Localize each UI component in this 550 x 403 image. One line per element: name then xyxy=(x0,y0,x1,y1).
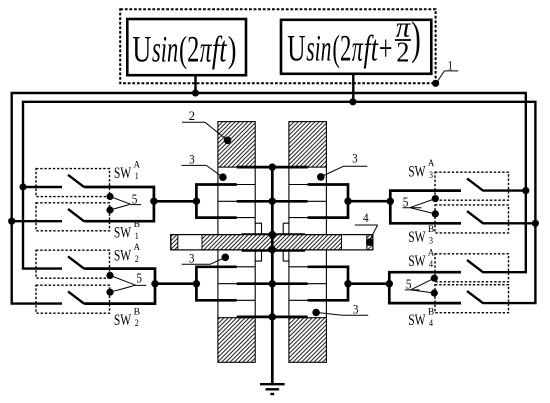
ground xyxy=(260,384,285,394)
wire: bus B (U2 output rail, left and right drops) xyxy=(23,102,535,303)
shuttle bar (label 4 element) xyxy=(171,235,373,250)
svg-text:2: 2 xyxy=(189,109,196,123)
svg-text:(2: (2 xyxy=(332,28,351,69)
svg-text:B: B xyxy=(134,307,140,318)
svg-text:3: 3 xyxy=(352,152,357,166)
svg-text:U: U xyxy=(287,28,305,69)
source U1 box: Usin(2pift) xyxy=(127,19,246,75)
node: SW2A contact dot xyxy=(106,272,113,279)
node: bus A / SW1B junction xyxy=(8,218,15,225)
comb frame lower-left column xyxy=(218,250,255,318)
stator electrode bracket upper-left xyxy=(196,185,236,218)
node: SW3A contact dot xyxy=(432,195,439,202)
switch SW1B xyxy=(36,203,110,231)
svg-text:ft: ft xyxy=(364,28,380,69)
node: SW3 input junction xyxy=(387,198,394,205)
node: SW2 output junction xyxy=(151,280,158,287)
signal source module dashed outline xyxy=(120,9,435,83)
label 5 for SW4 pair xyxy=(405,277,434,293)
node: lower-left bracket input xyxy=(193,280,200,287)
svg-text:3: 3 xyxy=(189,252,194,266)
finger row y283.7 (rotor, lower) xyxy=(237,282,308,285)
node: bus B / SW1A junction xyxy=(19,183,26,190)
stator electrode bracket lower-right xyxy=(308,267,348,301)
wire: SW4 pair input leads and tie bar xyxy=(389,272,461,303)
svg-text:4: 4 xyxy=(429,318,433,328)
node: U2 lead / bus B junction xyxy=(349,98,356,105)
svg-text:SW: SW xyxy=(114,312,132,329)
wire: SW3B right lead xyxy=(483,222,536,224)
label 3 upper-left xyxy=(182,153,222,177)
label 3 lower-left xyxy=(182,252,224,266)
label SW4^A xyxy=(408,247,434,269)
stator electrode bracket upper-right xyxy=(308,185,348,218)
stator block upper-left (hatched) xyxy=(218,122,255,168)
node: lower-right bracket input xyxy=(344,280,351,287)
shuttle neck outline above bar xyxy=(255,223,289,235)
svg-text:sin: sin xyxy=(152,30,178,71)
svg-text:): ) xyxy=(411,13,421,65)
label 5 for SW1 pair xyxy=(110,191,141,210)
node: spine row2 xyxy=(269,198,276,205)
finger row y167 (rotor, upper) xyxy=(237,166,308,169)
shuttle neck outline below bar xyxy=(255,250,289,261)
wire: SW1A left lead xyxy=(23,186,62,188)
node: SW3B contact dot xyxy=(432,210,439,217)
svg-text:): ) xyxy=(228,30,237,71)
wire: bus A (U1 output rail, left and right drops) xyxy=(12,93,526,304)
stator block upper-right (hatched) xyxy=(289,122,327,168)
node: spine row4 xyxy=(269,280,276,287)
node: spine row5 xyxy=(269,313,276,320)
svg-text:1: 1 xyxy=(448,58,453,73)
label 3 lower-right xyxy=(320,303,369,317)
node: label 3 lower-left dot xyxy=(222,253,230,261)
node: spine row1 xyxy=(269,163,276,170)
svg-text:3: 3 xyxy=(189,153,194,167)
node: SW4A contact dot xyxy=(431,275,438,282)
source U2 box: Usin(2pift+pi/2) xyxy=(281,12,431,74)
wire: U2 lead xyxy=(352,74,354,102)
node: SW4B contact dot xyxy=(431,289,438,296)
svg-text:3: 3 xyxy=(429,235,433,245)
wire: rotor center spine xyxy=(271,167,274,384)
svg-text:1: 1 xyxy=(135,171,139,181)
label 3 upper-right xyxy=(323,152,368,177)
wire: SW3 to right upper stator xyxy=(348,200,390,203)
node: dashed-box corner junction xyxy=(432,80,439,87)
label SW4^B xyxy=(408,307,434,329)
svg-text:B: B xyxy=(428,307,434,318)
svg-text:sin: sin xyxy=(306,28,331,69)
finger row y201 (rotor, upper) xyxy=(237,200,308,203)
switch SW3B xyxy=(435,205,509,233)
svg-text:4: 4 xyxy=(429,259,433,269)
svg-text:SW: SW xyxy=(114,225,132,242)
wire: SW1B left lead xyxy=(12,220,62,222)
node: U1 lead / bus A junction xyxy=(192,89,199,96)
svg-text:π: π xyxy=(200,30,213,71)
comb frame lower-right column xyxy=(289,250,327,318)
wire: SW3 pair input leads and tie bar xyxy=(390,191,461,224)
svg-text:B: B xyxy=(134,219,140,230)
label 2 xyxy=(182,109,227,140)
label 5 for SW2 pair xyxy=(110,271,146,293)
label SW3^A xyxy=(408,158,434,180)
svg-text:2: 2 xyxy=(135,254,139,264)
svg-text:1: 1 xyxy=(135,231,139,241)
wire: SW1 output to left upper stator xyxy=(154,200,197,203)
label 1 xyxy=(437,58,458,82)
label 4 xyxy=(355,211,378,239)
finger row y316.9 (rotor, lower) xyxy=(237,316,308,319)
svg-text:SW: SW xyxy=(408,229,426,246)
wire: SW4 to right lower stator xyxy=(348,282,389,285)
comb frame upper-left column xyxy=(218,167,255,235)
node: SW2B contact dot xyxy=(106,289,113,296)
node: upper-left bracket input xyxy=(193,198,200,205)
svg-text:SW: SW xyxy=(408,253,426,270)
node: SW4 input junction xyxy=(386,280,393,287)
svg-text:2: 2 xyxy=(396,37,409,69)
svg-text:5: 5 xyxy=(132,191,138,206)
node: label 3 lower-right dot xyxy=(312,309,320,317)
svg-text:A: A xyxy=(428,247,434,258)
node: SW1A contact dot xyxy=(106,193,113,200)
node: label 2 dot xyxy=(224,137,232,145)
wire: SW2 pair output leads and tie bar xyxy=(84,269,155,304)
svg-text:4: 4 xyxy=(363,211,369,225)
switch SW2A xyxy=(36,250,110,278)
svg-text:A: A xyxy=(428,158,434,169)
node: SW1 output junction xyxy=(150,198,157,205)
label SW3^B xyxy=(408,224,434,246)
label SW1^B xyxy=(114,219,140,241)
switch SW4B xyxy=(435,285,509,313)
node: bus A / SW3A junction xyxy=(522,187,529,194)
label SW2^B xyxy=(114,307,140,329)
svg-text:A: A xyxy=(134,159,140,170)
svg-text:B: B xyxy=(428,224,434,235)
comb frame upper-right column xyxy=(289,167,327,235)
label SW1^A xyxy=(114,159,140,181)
switch SW3A xyxy=(435,172,509,200)
node: SW1B contact dot xyxy=(106,206,113,213)
wire: SW2 output to left lower stator xyxy=(155,282,196,285)
svg-text:SW: SW xyxy=(114,165,132,182)
svg-text:5: 5 xyxy=(403,194,409,209)
switch SW4A xyxy=(435,254,509,282)
wire: SW1 pair output leads and tie bar xyxy=(84,187,154,221)
svg-text:3: 3 xyxy=(429,170,433,180)
switch SW2B xyxy=(36,285,110,313)
stator block lower-right (hatched) xyxy=(289,318,327,363)
node: label 3 upper-right dot xyxy=(317,173,325,181)
switch SW1A xyxy=(36,169,110,197)
stator block lower-left (hatched) xyxy=(218,318,255,363)
svg-text:5: 5 xyxy=(136,271,142,286)
node: bus B / SW3B junction xyxy=(532,220,539,227)
svg-text:3: 3 xyxy=(353,303,358,317)
svg-text:U: U xyxy=(132,30,151,71)
node: label 3 upper-left dot xyxy=(219,173,227,181)
svg-text:ft: ft xyxy=(212,30,228,71)
svg-text:A: A xyxy=(134,242,140,253)
label SW2^A xyxy=(114,242,140,264)
stator electrode bracket lower-left xyxy=(196,267,236,301)
svg-text:(2: (2 xyxy=(179,30,199,71)
node: label 4 dot xyxy=(366,238,374,246)
node: upper-right bracket input xyxy=(344,198,351,205)
svg-text:SW: SW xyxy=(408,164,426,181)
node: spine bar top xyxy=(269,231,276,238)
finger row y233.7 (rotor, above bar) xyxy=(242,233,306,236)
svg-text:π: π xyxy=(352,28,364,69)
node: spine bar bottom xyxy=(269,246,276,253)
finger row y250.8 (rotor, below bar) xyxy=(242,249,306,252)
svg-text:SW: SW xyxy=(408,312,426,329)
svg-text:2: 2 xyxy=(135,318,139,328)
svg-text:SW: SW xyxy=(114,248,132,265)
svg-text:+: + xyxy=(379,28,393,69)
label 5 for SW3 pair xyxy=(403,194,436,214)
wire: SW3A right lead xyxy=(483,189,526,191)
wire: U1 lead xyxy=(194,75,196,93)
